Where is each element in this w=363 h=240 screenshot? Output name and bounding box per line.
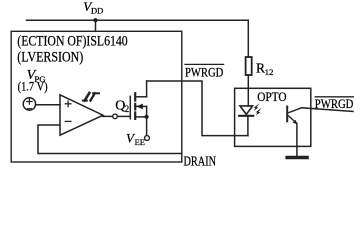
svg-text:PWRGD: PWRGD <box>315 96 354 111</box>
svg-text:DRAIN: DRAIN <box>184 154 217 169</box>
terminal VEE bubble <box>145 136 150 141</box>
wire feedback to - input <box>38 125 182 154</box>
junction dot VDD <box>93 18 97 22</box>
wire op-amp output <box>103 115 113 117</box>
LED D1 <box>239 106 253 136</box>
wire source to VEE pin <box>146 117 148 136</box>
label PWRGD (pin, overlined) <box>185 64 223 79</box>
wire bubble to gate <box>117 115 130 117</box>
output bubble <box>113 114 118 119</box>
wire VDD rail <box>27 19 249 21</box>
IC box ISL6140 <box>11 31 182 162</box>
label VEE <box>126 131 145 147</box>
junction dot source-body <box>145 115 149 119</box>
svg-text:DD: DD <box>91 6 103 16</box>
wire source to + input <box>36 104 60 106</box>
transistor Q2 MOSFET <box>130 93 146 119</box>
hysteresis symbol <box>83 93 99 101</box>
wire PWRGD output <box>302 108 354 112</box>
voltage source VPG circle <box>23 98 35 110</box>
light arrows <box>254 103 262 115</box>
label PWRGD output (overlined) <box>315 96 354 111</box>
svg-text:12: 12 <box>265 67 274 77</box>
ground <box>287 156 307 160</box>
net label VDD <box>83 0 103 16</box>
phototransistor <box>287 107 301 156</box>
label Q2 <box>115 98 129 114</box>
optocoupler box <box>235 88 311 146</box>
wire drain up <box>146 81 148 97</box>
svg-text:OPTO: OPTO <box>257 89 286 104</box>
wire drain to opto LED <box>147 81 248 136</box>
svg-text:EE: EE <box>135 137 145 147</box>
svg-text:(1.7 V): (1.7 V) <box>18 79 48 93</box>
svg-text:(LVERSION): (LVERSION) <box>17 50 83 66</box>
svg-text:PWRGD: PWRGD <box>185 64 223 79</box>
resistor R12 <box>246 20 252 106</box>
label R12 <box>256 60 273 77</box>
svg-text:2: 2 <box>125 104 130 114</box>
label VPG <box>27 68 47 84</box>
wire VDD stub to IC box <box>95 20 97 31</box>
svg-text:(ECTION OF)ISL6140: (ECTION OF)ISL6140 <box>17 33 127 49</box>
op-amp U1 <box>60 95 103 135</box>
